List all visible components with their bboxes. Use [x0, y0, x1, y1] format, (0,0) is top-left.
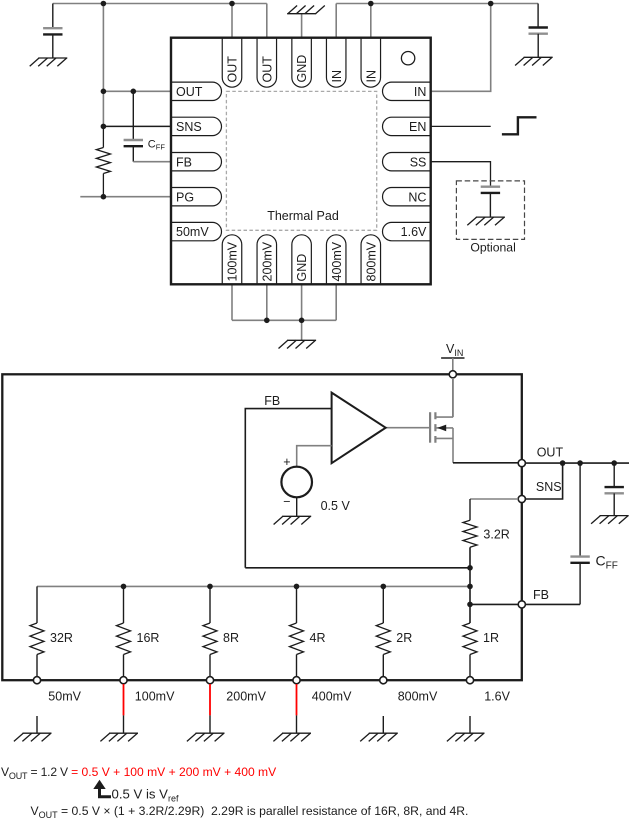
svg-text:PG: PG [176, 190, 194, 204]
junction IN2 on rail [368, 1, 374, 7]
junction PG node [101, 194, 107, 200]
junction FB port node [467, 602, 473, 608]
optional box [456, 181, 524, 240]
junction OUT node [101, 89, 107, 95]
svg-text:IN: IN [330, 70, 344, 83]
wire ladder top rail [37, 585, 470, 587]
wire floating ground stub 1.6V [469, 716, 471, 733]
capacitor CFF2 top lead [579, 463, 581, 556]
wire top-left VOUT rail [53, 3, 267, 5]
port 800mV [380, 677, 387, 684]
junction COUT on OUT rail [611, 460, 617, 466]
wire FB node to FB port [470, 603, 518, 605]
junction FB net [467, 565, 473, 571]
port 100mV [120, 677, 127, 684]
transistor Q1 body arrow [437, 425, 446, 432]
resistor 8R bottom lead [209, 655, 211, 677]
ground COUT [591, 516, 629, 524]
wire bottom bus to ground [301, 320, 303, 340]
junction rail at 8R [207, 584, 213, 590]
svg-text:OUT: OUT [537, 446, 564, 460]
pin 1.6V (right) [383, 222, 431, 240]
capacitor CFF2 [570, 557, 589, 563]
svg-text:FB: FB [264, 394, 280, 408]
IC package U1 [171, 38, 431, 285]
resistor 32R bottom lead [36, 655, 38, 677]
wire ground stub 100mV [123, 715, 125, 733]
svg-text:GND: GND [295, 55, 309, 83]
svg-text:1.6V: 1.6V [401, 225, 427, 239]
ground 50mV [14, 733, 52, 741]
capacitor CIN1 bottom lead [52, 35, 54, 59]
wire PG pin [80, 196, 171, 198]
wire ground stub 200mV [209, 715, 211, 733]
wire red ground strap [123, 684, 125, 715]
svg-text:50mV: 50mV [176, 225, 209, 239]
wire GND pin to top ground [301, 14, 303, 38]
svg-text:−: − [283, 495, 290, 509]
pin EN (right) [383, 117, 431, 135]
wire red ground strap [296, 684, 298, 715]
svg-text:2R: 2R [396, 631, 412, 645]
svg-text:400mV: 400mV [330, 241, 344, 281]
resistor 2R bottom lead [382, 655, 384, 677]
wire 3.2R to FB node and 1R [469, 547, 471, 623]
pin 100mV (bottom) [222, 235, 242, 284]
thermal pad [226, 91, 376, 230]
junction rail at 2R [381, 584, 387, 590]
junction IN on rail [488, 1, 494, 7]
svg-text:SNS: SNS [176, 120, 202, 134]
resistor 4R top lead [296, 586, 298, 623]
wire top pin IN1 to rail [335, 4, 337, 38]
svg-text:0.5 V is Vref: 0.5 V is Vref [112, 787, 179, 804]
wire floating ground stub 50mV [36, 716, 38, 733]
junction CFF at OUT [131, 89, 137, 95]
EN enable step signal [502, 117, 537, 134]
ground CIN1 [30, 58, 68, 66]
pin 200mV (bottom) [257, 235, 277, 284]
wire op-amp noninverting input [297, 446, 332, 467]
svg-text:CFF: CFF [148, 138, 166, 151]
svg-text:FB: FB [176, 155, 192, 169]
op-amp U2 [332, 393, 386, 464]
svg-text:200mV: 200mV [260, 241, 274, 281]
svg-text:0.5 V: 0.5 V [321, 499, 351, 513]
wire red ground strap [209, 684, 211, 715]
svg-text:100mV: 100mV [226, 241, 240, 281]
capacitor CSS [481, 187, 500, 193]
capacitor CIN1 top lead [52, 4, 54, 29]
resistor 32R [30, 623, 44, 655]
pin FB (left) [171, 153, 221, 171]
wire top-right VIN rail [336, 3, 538, 5]
svg-text:IN: IN [364, 70, 378, 83]
wire CFF top lead [132, 91, 134, 140]
svg-text:1.6V: 1.6V [484, 690, 510, 704]
svg-text:EN: EN [409, 120, 426, 134]
svg-text:SS: SS [410, 155, 427, 169]
svg-text:VOUT = 0.5 V × (1 + 3.2R/2.29R: VOUT = 0.5 V × (1 + 3.2R/2.29R) [31, 804, 205, 820]
resistor 2R [376, 623, 390, 655]
resistor 8R top lead [209, 586, 211, 623]
resistor 16R top lead [123, 586, 125, 623]
wire SNS pin [103, 125, 171, 127]
pin PG (left) [171, 188, 221, 206]
junction 200mV on gnd bus [264, 318, 270, 324]
svg-text:CFF: CFF [596, 552, 618, 571]
svg-text:4R: 4R [310, 631, 326, 645]
junction GND on gnd bus [299, 318, 305, 324]
port OUT [518, 460, 525, 467]
junction SNS node [101, 124, 107, 130]
ground CIN2 [515, 57, 553, 65]
junction SNS on OUT rail [560, 460, 566, 466]
wire top pin IN2 to rail [370, 4, 372, 38]
pin 800mV (bottom) [361, 235, 381, 284]
ground top GND pin [287, 6, 325, 14]
svg-text:800mV: 800mV [398, 690, 438, 704]
svg-text:100mV: 100mV [135, 690, 175, 704]
svg-text:1R: 1R [483, 631, 499, 645]
capacitor CFF [124, 140, 143, 146]
wire EN pin [431, 125, 491, 127]
pin IN (top) [326, 38, 346, 88]
resistor 16R bottom lead [123, 655, 125, 677]
junction rail-left [101, 1, 107, 7]
wire top pin OUT2 to rail [266, 4, 268, 38]
resistor RFB [96, 148, 110, 174]
port VIN [449, 371, 456, 378]
wire V1 to ground [296, 497, 298, 516]
pin IN (top) [361, 38, 381, 88]
pin GND (top) [292, 38, 312, 88]
pin IN (right) [383, 82, 431, 100]
wire SNS to R 3.2R [470, 498, 518, 500]
port FB [518, 601, 525, 608]
capacitor COUT bottom lead [613, 493, 615, 515]
pin 400mV (bottom) [326, 235, 346, 284]
pin OUT (left) [171, 82, 222, 100]
wire source down [452, 428, 454, 463]
port 1.6V [466, 677, 473, 684]
arrow to 0.5V [93, 780, 105, 789]
capacitor CFF2 bottom lead [579, 563, 581, 605]
pin OUT (top) [222, 38, 242, 88]
svg-text:8R: 8R [223, 631, 239, 645]
pin SS (right) [383, 153, 431, 171]
block diagram outline [2, 374, 522, 680]
wire VIN bar to port [452, 358, 454, 371]
junction ladder rail at FB [467, 584, 473, 590]
resistor 8R [203, 623, 217, 655]
port SNS [518, 495, 525, 502]
svg-text:16R: 16R [137, 631, 160, 645]
resistor 1R [463, 623, 477, 655]
resistor 32R top lead [36, 586, 38, 623]
svg-text:Optional: Optional [470, 241, 515, 255]
wire top pin OUT1 to rail [231, 4, 233, 38]
capacitor CSS bottom lead [489, 193, 491, 217]
VIN supply bar [441, 357, 464, 359]
ground 400mV [273, 733, 311, 741]
svg-text:50mV: 50mV [48, 690, 81, 704]
resistor RFB bottom lead [102, 174, 104, 197]
svg-text:FB: FB [533, 588, 549, 602]
wire SNS to OUT [525, 463, 562, 499]
capacitor CIN2 top lead [537, 4, 539, 28]
transistor Q1 source stub [436, 437, 453, 439]
svg-text:2.29R is parallel resistance o: 2.29R is parallel resistance of 16R, 8R,… [211, 804, 468, 818]
svg-text:NC: NC [408, 190, 426, 204]
wire IN pin to rail [431, 4, 491, 92]
resistor 3.2R [463, 520, 477, 547]
wire FB to op-amp inverting input [245, 409, 331, 568]
resistor 2R top lead [382, 586, 384, 623]
wire floating ground stub 800mV [382, 716, 384, 733]
ground V1 [274, 516, 312, 524]
svg-text:OUT: OUT [176, 85, 203, 99]
pin OUT (top) [257, 38, 277, 88]
pin 50mV (left) [171, 222, 222, 240]
wire OUT pin [103, 90, 171, 92]
ground 1.6V [447, 733, 485, 741]
wire drain up [452, 378, 454, 417]
transistor Q1 channel [434, 412, 436, 443]
svg-text:SNS: SNS [536, 480, 562, 494]
ground 800mV [360, 733, 398, 741]
capacitor COUT top lead [613, 463, 615, 487]
resistor 1R bottom lead [469, 655, 471, 677]
wire SS pin to CSS [431, 162, 491, 187]
wire left vertical OUT net [102, 4, 104, 127]
junction OUT1 on rail [229, 1, 235, 7]
wire FB pin [133, 161, 171, 163]
resistor 16R [117, 623, 131, 655]
junction rail at 16R [121, 584, 127, 590]
wire VIN to MOSFET drain [452, 378, 454, 417]
svg-text:32R: 32R [50, 631, 73, 645]
pin NC (right) [383, 188, 431, 206]
resistor 3.2R top lead [469, 499, 471, 520]
svg-text:IN: IN [414, 85, 427, 99]
capacitor CIN2 [529, 28, 548, 34]
transistor Q1 drain stub [436, 416, 453, 418]
port 400mV [293, 677, 300, 684]
transistor Q1 gate bar [429, 412, 431, 443]
voltage source V1 0.5V [281, 467, 312, 498]
resistor 4R [290, 623, 304, 655]
wire FB net horizontal [245, 567, 470, 569]
svg-text:OUT: OUT [226, 56, 240, 83]
svg-text:GND: GND [295, 254, 309, 282]
wire bottom gnd bus [232, 319, 336, 321]
ground CSS [467, 217, 505, 225]
wire op-amp output to gate [386, 427, 429, 429]
svg-text:VIN: VIN [446, 342, 463, 358]
svg-text:200mV: 200mV [226, 690, 266, 704]
junction CFF2 on OUT rail [577, 460, 583, 466]
resistor RFB top lead [102, 126, 104, 147]
ground 200mV [187, 733, 225, 741]
wire source to OUT port [453, 462, 518, 464]
pin 1 indicator circle [401, 52, 414, 65]
wire OUT rail [525, 462, 629, 464]
ground 100mV [100, 733, 138, 741]
pin GND (bottom) [292, 235, 312, 284]
wire ground stub 400mV [296, 715, 298, 733]
capacitor CIN2 bottom lead [537, 34, 539, 58]
svg-text:800mV: 800mV [364, 241, 378, 281]
svg-text:400mV: 400mV [312, 690, 352, 704]
pin SNS (left) [171, 117, 222, 135]
svg-text:Thermal Pad: Thermal Pad [267, 209, 339, 223]
resistor 4R bottom lead [296, 655, 298, 677]
port 200mV [206, 677, 213, 684]
wire FB port to CFF2 [525, 603, 580, 605]
wire CFF bottom lead [132, 147, 134, 162]
svg-text:3.2R: 3.2R [483, 528, 509, 542]
svg-text:VOUT = 1.2 V = 0.5 V + 100 mV: VOUT = 1.2 V = 0.5 V + 100 mV + 200 mV +… [1, 765, 277, 781]
svg-text:+: + [283, 455, 290, 469]
wire bottom pins down [232, 284, 336, 320]
ground bottom bus [279, 340, 317, 348]
svg-text:OUT: OUT [260, 56, 274, 83]
junction rail at 4R [294, 584, 300, 590]
port 50mV [33, 677, 40, 684]
capacitor COUT [605, 487, 624, 493]
capacitor CIN1 [43, 28, 62, 34]
transistor Q1 body stub [436, 427, 453, 429]
